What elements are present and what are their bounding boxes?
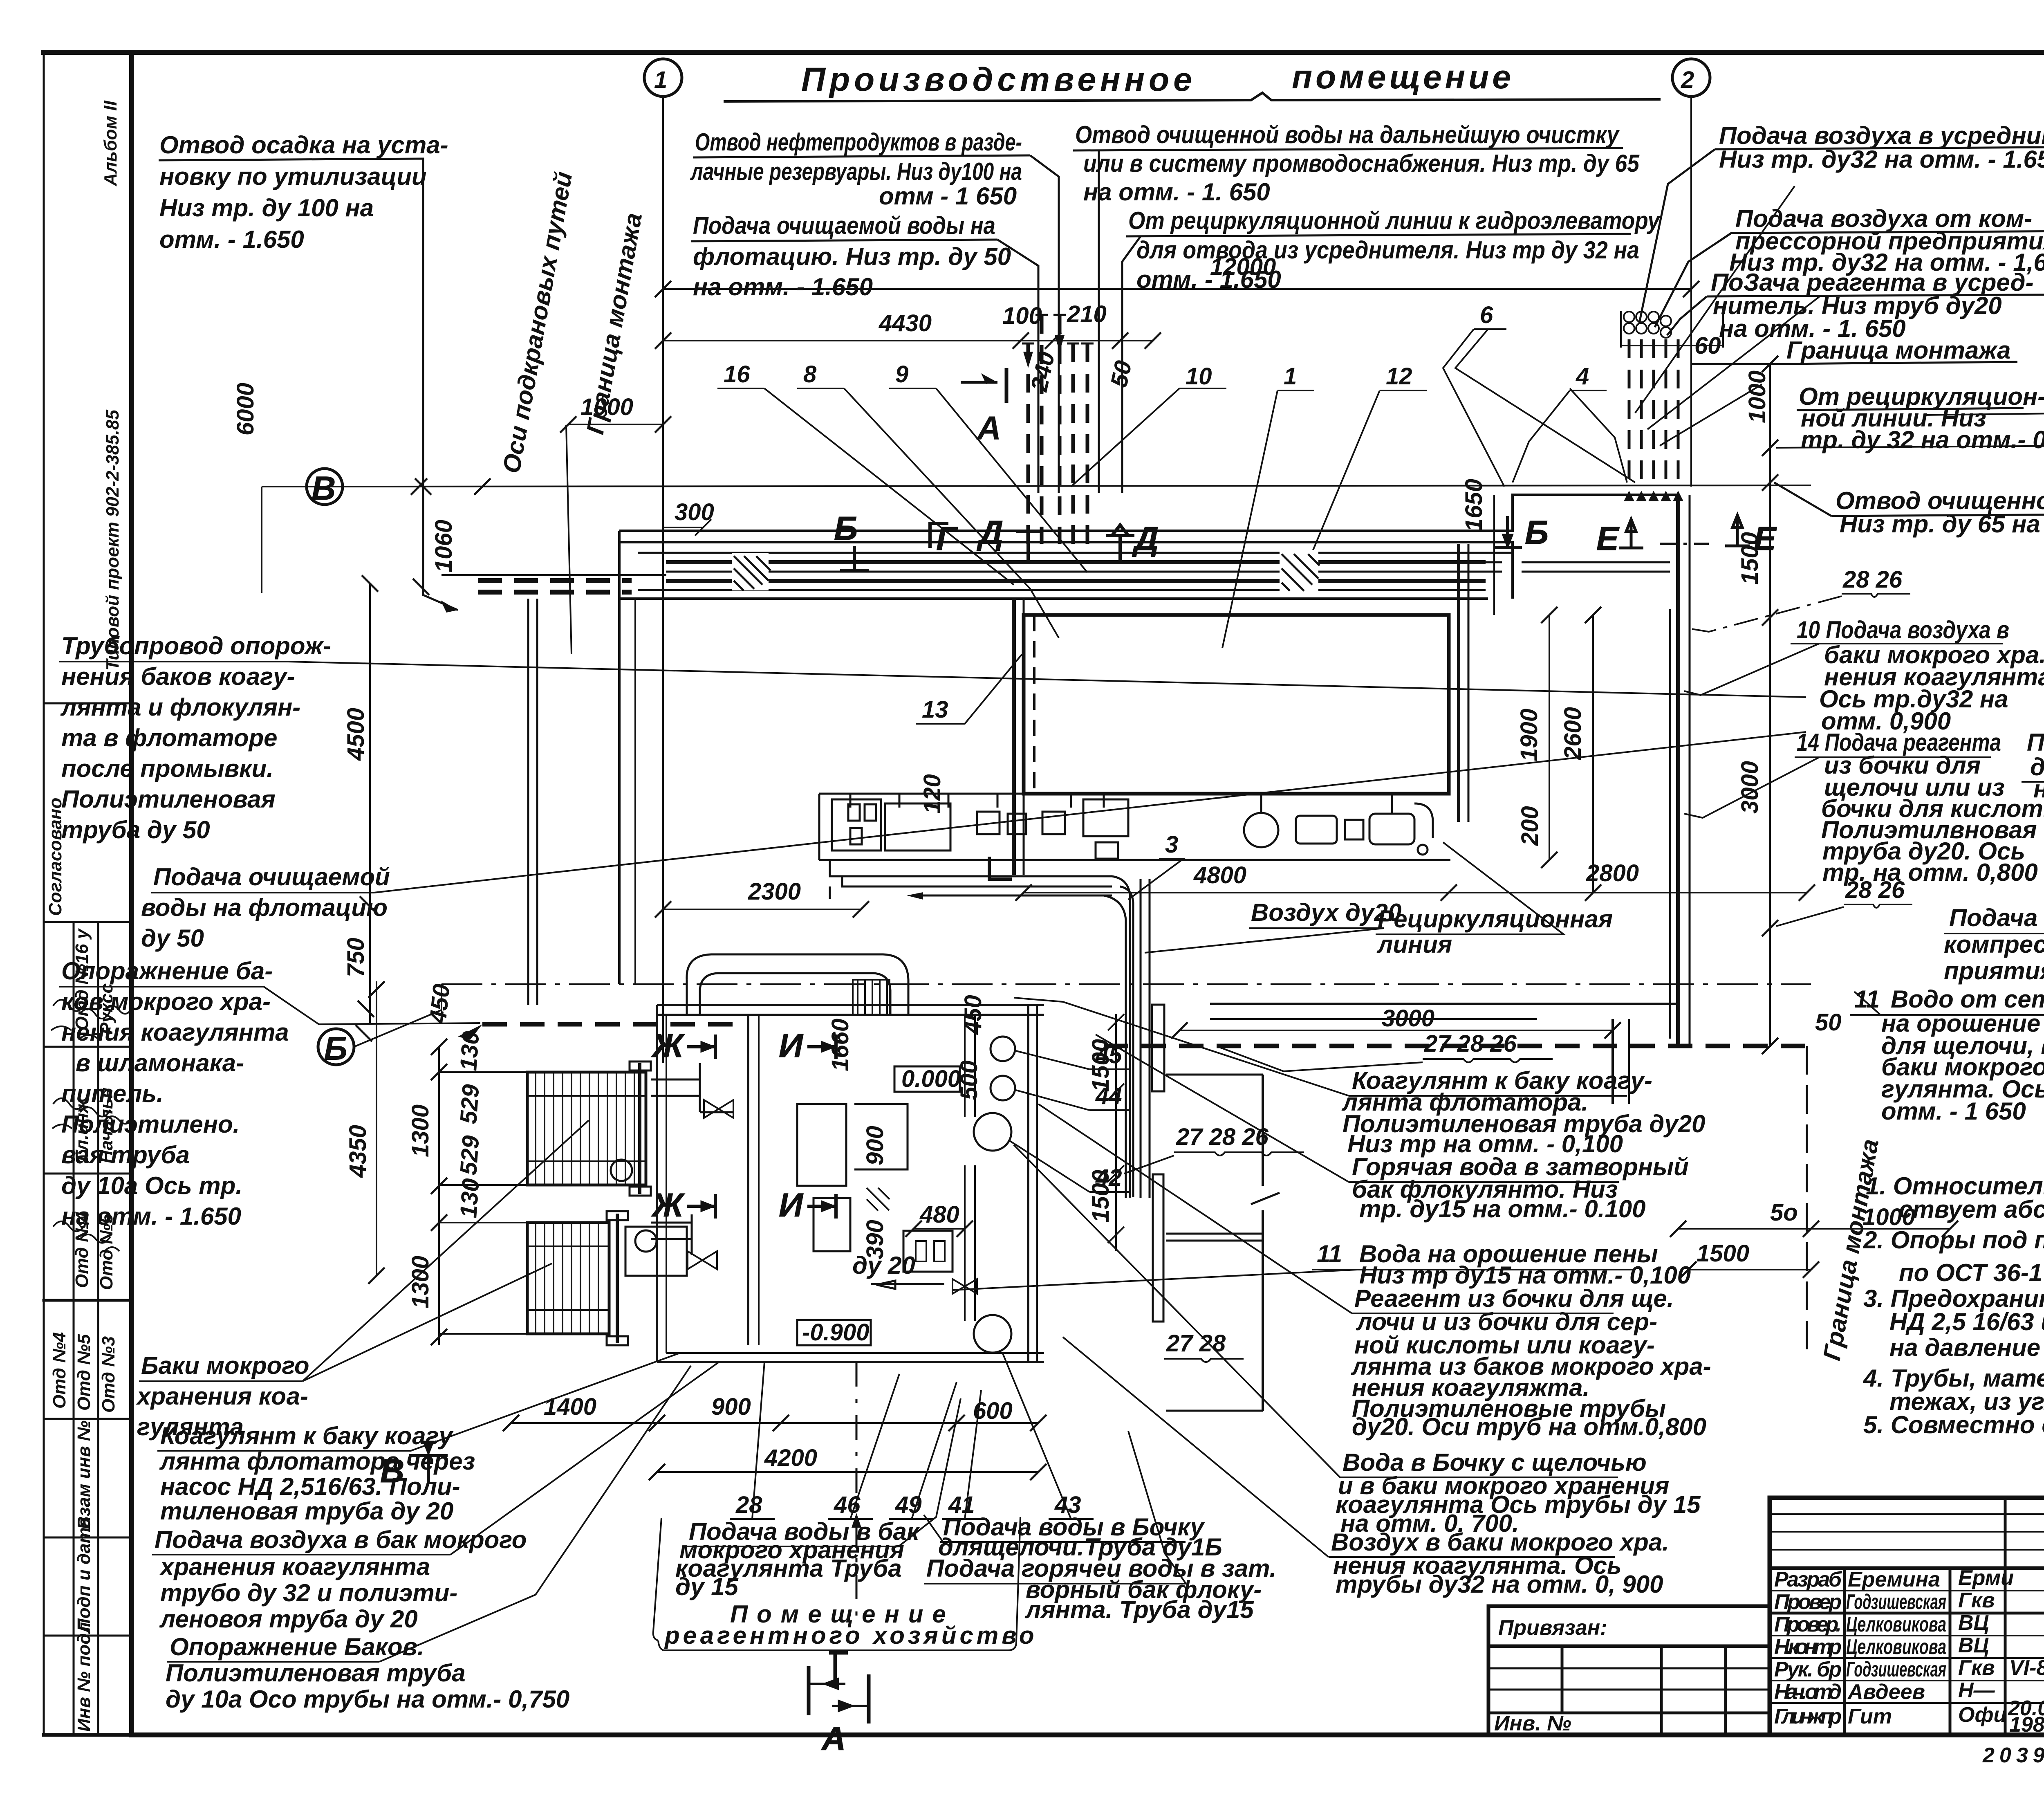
underline koagulyant flotatora bbox=[1014, 998, 1627, 1096]
dashed pipe bundle top right (x 3650-3800) bbox=[1621, 311, 1723, 501]
DD junction leader bbox=[1923, 361, 2044, 415]
bottom right dim line bbox=[1678, 1228, 1950, 1230]
motor block 2 bbox=[1345, 820, 1363, 839]
du20 arrow pipe bbox=[871, 1281, 944, 1289]
svg-text:А: А bbox=[976, 410, 1001, 447]
dim line 1400-900 bbox=[511, 1422, 1038, 1424]
svg-text:450: 450 bbox=[424, 983, 455, 1025]
svg-text:Еремина: Еремина bbox=[1848, 1568, 1940, 1591]
underline vozdukh v baki bbox=[1063, 1337, 1615, 1557]
svg-text:Г: Г bbox=[936, 520, 958, 557]
svg-text:Коагулянт к баку коагу: Коагулянт к баку коагу bbox=[160, 1422, 454, 1450]
axis 2 line bbox=[1690, 96, 1692, 487]
underline ochishchaemoy bbox=[691, 240, 997, 241]
underline retsirk r bbox=[1797, 408, 2024, 410]
svg-text:-0.900: -0.900 bbox=[802, 1319, 869, 1346]
pump room inner pipes vertical bbox=[965, 1015, 975, 1321]
svg-text:ду 10а Ось тр.: ду 10а Ось тр. bbox=[61, 1172, 242, 1199]
svg-text:Гкв: Гкв bbox=[1958, 1656, 1995, 1680]
barrel labels 45 44 42 bbox=[1095, 1042, 1122, 1191]
flotator left dashed bbox=[1033, 615, 1035, 794]
svg-text:Е: Е bbox=[1754, 520, 1777, 557]
callout 8 leader bbox=[797, 388, 1059, 638]
svg-text:ду 15: ду 15 bbox=[675, 1573, 739, 1600]
svg-text:900: 900 bbox=[862, 1126, 888, 1165]
svg-text:0.000: 0.000 bbox=[901, 1066, 961, 1092]
svg-text:6000: 6000 bbox=[232, 383, 259, 435]
flotator left wall thick bbox=[1012, 599, 1016, 875]
leader otvod ochishchennoy bbox=[1098, 150, 1100, 493]
svg-text:50: 50 bbox=[1105, 358, 1137, 390]
svg-text:Баки мокрого: Баки мокрого bbox=[141, 1352, 309, 1379]
kompressornoy underline bbox=[1944, 934, 2044, 985]
svg-text:лянта. Труба ду15: лянта. Труба ду15 bbox=[1024, 1596, 1254, 1623]
svg-text:на отм. - 1.650: на отм. - 1.650 bbox=[61, 1203, 241, 1230]
left strip divider bbox=[73, 922, 75, 1735]
callout 9 leader bbox=[889, 388, 1087, 572]
svg-text:на давление 6 кгс/см²: на давление 6 кгс/см² bbox=[1889, 1334, 2044, 1361]
equip rects inside bbox=[797, 1104, 846, 1186]
svg-text:Инв. №: Инв. № bbox=[1494, 1712, 1571, 1735]
tank 2 inner box bbox=[625, 1227, 687, 1276]
svg-text:1900: 1900 bbox=[1516, 709, 1542, 761]
svg-text:450: 450 bbox=[960, 995, 986, 1035]
tank dim chain left bbox=[368, 981, 527, 1345]
axis bubble V bbox=[307, 469, 343, 505]
svg-text:Отвод очищенной воды на дальне: Отвод очищенной воды на дальнейшую очист… bbox=[1075, 121, 1620, 148]
lower pipe run bbox=[830, 860, 1112, 876]
label 3 leader bbox=[1128, 859, 1183, 900]
axis B dash-dot bbox=[442, 983, 1811, 985]
svg-text:2. Опоры под полиэтиленовые: 2. Опоры под полиэтиленовые трубы выполн… bbox=[1863, 1226, 2044, 1254]
TITLE BLOCK bbox=[1770, 1498, 2044, 1735]
svg-text:130: 130 bbox=[455, 1178, 484, 1219]
dim 1650 line bbox=[1493, 495, 1495, 615]
underline otvod r bbox=[1831, 514, 2044, 516]
crane rail dashed bbox=[478, 578, 632, 583]
dim 1000 line bbox=[560, 416, 671, 433]
granitsa line left vertical bbox=[566, 425, 572, 654]
drop 2 circles bbox=[1624, 312, 1671, 338]
dim 3000 bottom line bbox=[1179, 1030, 1613, 1031]
label 13 underline leader bbox=[916, 654, 1022, 724]
leader ochishchaemoy bbox=[997, 240, 1038, 493]
svg-text:Гит: Гит bbox=[1848, 1705, 1892, 1728]
svg-text:Типовой проект 902-2-385.85: Типовой проект 902-2-385.85 bbox=[103, 410, 123, 671]
left vertical dim chain bbox=[262, 478, 431, 1041]
svg-text:В: В bbox=[312, 470, 336, 507]
tank 2 body bbox=[527, 1223, 609, 1334]
hatch patch 1 bbox=[732, 553, 771, 590]
title block: staff row lines bbox=[1770, 1590, 2044, 1591]
svg-text:Рециркуляционная: Рециркуляционная bbox=[1378, 905, 1613, 933]
svg-text:28 26: 28 26 bbox=[1842, 566, 1903, 593]
A-A section marker bottom bbox=[809, 1653, 869, 1757]
privyazan box bbox=[1488, 1606, 1770, 1735]
svg-text:Подача очищаемой воды на: Подача очищаемой воды на bbox=[693, 212, 995, 239]
marker B down arrow right bbox=[1493, 516, 1522, 549]
svg-text:Отд №3: Отд №3 bbox=[99, 1336, 119, 1413]
svg-text:Взам инв №: Взам инв № bbox=[74, 1421, 94, 1529]
pump circle bbox=[1244, 813, 1278, 847]
granitsa dashed thick right bbox=[1104, 1044, 1811, 1048]
squiggle braces bbox=[1423, 1059, 1553, 1062]
underline podacha ochishch left bbox=[151, 732, 1806, 893]
svg-text:помещение: помещение bbox=[1292, 58, 1514, 96]
svg-text:И: И bbox=[779, 1027, 804, 1064]
underline oporazhnenie bottom bbox=[167, 1366, 691, 1662]
svg-text:питель.: питель. bbox=[61, 1080, 164, 1107]
svg-text:воды на флотацию: воды на флотацию bbox=[141, 894, 388, 921]
svg-text:Н.контр: Н.контр bbox=[1774, 1635, 1842, 1659]
vertical dashed axis pump room bbox=[856, 1362, 858, 1627]
svg-text:2: 2 bbox=[1681, 67, 1694, 93]
pump room bottom wall bbox=[657, 1361, 1044, 1363]
underline retsirk bbox=[1126, 234, 1631, 236]
right wall double bbox=[1676, 495, 1680, 1047]
svg-text:Офи: Офи bbox=[1958, 1703, 2006, 1727]
callout 16 leader bbox=[717, 388, 1014, 585]
elevation label 0.000 bbox=[894, 1066, 960, 1092]
tank 2 flanges bbox=[607, 1211, 628, 1220]
leader podacha vozdukha bbox=[1639, 149, 1715, 323]
dim 1900 2600 lines bbox=[1549, 615, 1550, 860]
underline goryachaya bbox=[1096, 1035, 1619, 1182]
pump room left wall bbox=[656, 1005, 658, 1362]
right wall inner pipes bbox=[1669, 609, 1671, 1039]
axis bubble B bbox=[318, 1029, 354, 1065]
pump unit small rects left bbox=[832, 799, 881, 851]
svg-text:11: 11 bbox=[1854, 985, 1880, 1013]
svg-text:20397-01: 20397-01 bbox=[1982, 1744, 2044, 1767]
svg-text:тр. ду15 на отм.- 0.100: тр. ду15 на отм.- 0.100 bbox=[1359, 1195, 1646, 1223]
pump room wall block hatched bbox=[853, 980, 890, 1015]
svg-text:Подача воздуха в усреднитель: Подача воздуха в усреднитель bbox=[1719, 122, 2044, 149]
svg-text:нения коагулянта: нения коагулянта bbox=[61, 1019, 289, 1046]
svg-text:Е: Е bbox=[1596, 520, 1620, 557]
svg-text:хранения коа-: хранения коа- bbox=[136, 1382, 308, 1410]
manifold small bbox=[1083, 799, 1128, 836]
hatch small patch inside bbox=[867, 1188, 890, 1211]
svg-text:4500: 4500 bbox=[343, 708, 369, 761]
svg-text:Согласовано: Согласовано bbox=[45, 798, 65, 916]
block 14 underline bbox=[1684, 757, 1991, 818]
corridor pipes bbox=[638, 552, 1486, 554]
callout 6 leader bbox=[1443, 329, 1506, 487]
title block: designation cell bottom bbox=[1770, 1566, 2044, 1570]
wall line vertical bbox=[1262, 1075, 1264, 1411]
svg-text:Годзишевская: Годзишевская bbox=[1846, 1658, 1946, 1681]
left strip row lines bbox=[44, 702, 132, 705]
svg-text:Целковикова: Целковикова bbox=[1846, 1613, 1946, 1636]
callout 10 leader bbox=[1071, 388, 1226, 487]
frame bottom edge full bbox=[44, 1733, 2044, 1737]
plan top wall bbox=[619, 541, 1488, 543]
tank 2 circle bbox=[635, 1230, 657, 1252]
tank 1 grid horizontals bbox=[527, 1096, 646, 1161]
svg-text:От рециркуляционной линии к ги: От рециркуляционной линии к гидроэлевато… bbox=[1128, 207, 1661, 234]
svg-text:200: 200 bbox=[1517, 806, 1543, 846]
svg-text:или в систему промводоснабжен: или в систему промводоснабжения. Низ тр.… bbox=[1083, 150, 1640, 177]
leaders from top-right labels to drop2 bbox=[1455, 186, 1819, 482]
granitsa dashed thick left bbox=[482, 1022, 738, 1027]
underline granitsa montazha r bbox=[1784, 362, 2017, 364]
svg-text:отм - 1 650: отм - 1 650 bbox=[879, 182, 1017, 210]
wall T column upper bbox=[1152, 1005, 1164, 1091]
vertical drop line pair left bbox=[829, 886, 831, 899]
svg-text:130: 130 bbox=[455, 1030, 484, 1072]
svg-text:новку по утилизации: новку по утилизации bbox=[159, 163, 427, 190]
svg-text:4: 4 bbox=[1576, 363, 1589, 390]
svg-text:отм. - 1.650: отм. - 1.650 bbox=[159, 226, 304, 253]
svg-text:2600: 2600 bbox=[1560, 707, 1586, 760]
left strip rotated texts bbox=[45, 101, 123, 1732]
svg-text:VI-83: VI-83 bbox=[2009, 1656, 2044, 1680]
svg-text:6: 6 bbox=[1480, 302, 1493, 328]
underline podacha vody v bochku bbox=[924, 1515, 1186, 1542]
motor block 1 bbox=[1296, 816, 1337, 844]
tank 1 circle fitting bbox=[611, 1160, 632, 1181]
leaders 27 28 26 bbox=[1124, 1047, 1423, 1174]
28 26 bottom brace bbox=[1844, 904, 1912, 908]
svg-text:Б: Б bbox=[324, 1030, 347, 1067]
svg-text:Авдеев: Авдеев bbox=[1847, 1680, 1925, 1704]
svg-text:3: 3 bbox=[1165, 831, 1178, 858]
dim 1000 vertical r bbox=[1769, 364, 1771, 482]
axis arrow bottom bbox=[852, 1513, 861, 1528]
granitsa vertical dash bottom right bbox=[1806, 1046, 1808, 1358]
podacha voz usred underline bbox=[2022, 782, 2044, 877]
svg-text:750: 750 bbox=[343, 938, 369, 977]
title block outer bbox=[1770, 1498, 2044, 1735]
underline kompressornoy bbox=[1731, 231, 2044, 233]
svg-text:Провер: Провер bbox=[1774, 1590, 1842, 1614]
svg-text:Полиэтиленовая труба: Полиэтиленовая труба bbox=[166, 1659, 466, 1687]
pomeshchenie callout outline bbox=[653, 1517, 1020, 1650]
tank 1 body bbox=[527, 1072, 646, 1185]
small circles fittings bbox=[1418, 845, 1428, 855]
underline baki bbox=[139, 1120, 589, 1381]
callout row leaders bbox=[752, 1353, 1071, 1519]
leader retsirk bbox=[1122, 236, 1141, 493]
dim 6000 extension bbox=[262, 487, 423, 593]
svg-text:Рук. бр: Рук. бр bbox=[1774, 1658, 1842, 1681]
dim 300 line bbox=[663, 519, 711, 536]
dim 4430 line bbox=[663, 340, 1021, 341]
dim 4430 ticks bbox=[655, 332, 1161, 349]
svg-text:на отм. - 1.650: на отм. - 1.650 bbox=[693, 273, 873, 301]
svg-text:529: 529 bbox=[455, 1084, 484, 1125]
callout row underlines bbox=[730, 1518, 1094, 1520]
header underline bbox=[724, 93, 1661, 101]
equipment risers bbox=[850, 794, 1392, 814]
svg-text:5о: 5о bbox=[1770, 1199, 1798, 1226]
tank 1 flanges bbox=[630, 1061, 651, 1070]
marker L left bbox=[989, 857, 1012, 879]
svg-text:4800: 4800 bbox=[1193, 862, 1246, 889]
dim chain vertical line bbox=[422, 487, 424, 595]
svg-text:16: 16 bbox=[724, 361, 750, 388]
marker V bottom left bbox=[380, 1441, 448, 1490]
tank header pipe vertical bbox=[747, 1014, 749, 1345]
svg-text:13: 13 bbox=[922, 696, 948, 723]
equipment row top line bbox=[819, 793, 1024, 795]
svg-text:1: 1 bbox=[654, 67, 667, 93]
pipe run arrows bbox=[916, 895, 1112, 897]
svg-text:Производственное: Производственное bbox=[801, 61, 1196, 98]
svg-text:вая труба: вая труба bbox=[61, 1141, 190, 1169]
extension lines tanks bbox=[439, 1072, 527, 1334]
left wall of hall bbox=[618, 531, 621, 984]
svg-text:Трубопровод опорож-: Трубопровод опорож- bbox=[61, 632, 331, 660]
svg-text:трубо ду 32 и полиэти-: трубо ду 32 и полиэти- bbox=[160, 1579, 457, 1607]
drop 2 funnels bbox=[1624, 491, 1683, 501]
svg-text:тр. ду 32 на отм.- 0,200: тр. ду 32 на отм.- 0,200 bbox=[1801, 426, 2044, 453]
corridor right elbow bbox=[1486, 542, 1513, 599]
svg-text:Д: Д bbox=[1132, 520, 1159, 557]
tank 2 grid horizontals bbox=[527, 1246, 609, 1310]
svg-text:Подп и дата: Подп и дата bbox=[74, 1517, 94, 1631]
wall T bar bbox=[1166, 1234, 1263, 1241]
svg-text:НД 2,5 16/63 и НД 2.5 25/40: НД 2,5 16/63 и НД 2.5 25/40 отрегулирова… bbox=[1889, 1308, 2044, 1335]
valve bowtie bbox=[953, 1279, 977, 1294]
underline nefteproduktov bbox=[693, 155, 1030, 157]
svg-text:по ОСТ 36-17-77: по ОСТ 36-17-77 bbox=[1899, 1259, 2044, 1286]
underline podacha goryachei bbox=[924, 1431, 1186, 1584]
svg-text:1500: 1500 bbox=[1087, 1039, 1114, 1092]
28 26 top brace bbox=[1842, 594, 1910, 597]
svg-text:ду 50: ду 50 bbox=[141, 925, 204, 952]
svg-text:50: 50 bbox=[1815, 1009, 1842, 1036]
title block: staff column lines bbox=[1843, 1568, 1846, 1735]
27 28 26 labels group bbox=[1166, 1030, 1517, 1357]
28 26 top leaders bbox=[1691, 596, 1842, 632]
svg-text:Привязан:: Привязан: bbox=[1498, 1616, 1607, 1640]
underline reagent bbox=[1038, 1104, 1614, 1313]
svg-text:Полиэтиленовая: Полиэтиленовая bbox=[61, 785, 276, 813]
svg-text:Опоражнение ба-: Опоражнение ба- bbox=[61, 957, 273, 985]
svg-text:1300: 1300 bbox=[407, 1104, 434, 1157]
axis V line bbox=[345, 485, 1811, 487]
retsirk leader bbox=[1376, 842, 1564, 934]
underline koagulyant bottom bbox=[157, 1353, 679, 1451]
bottom left labels under pump room bbox=[664, 1513, 1276, 1649]
second room top wall bbox=[1210, 1003, 1678, 1005]
title block: top small rows bbox=[1770, 1513, 2044, 1515]
svg-text:Д: Д bbox=[977, 514, 1003, 551]
dim line 4200 bbox=[657, 1471, 1038, 1473]
elevation label -0.900 bbox=[797, 1320, 871, 1345]
inner wall vertical right bbox=[1611, 1019, 1614, 1104]
underline oporazhnenie left bbox=[59, 987, 480, 1024]
svg-text:120: 120 bbox=[919, 774, 946, 814]
top right wall piece bbox=[1488, 495, 1678, 531]
dim 1400 900 4200 600 bottom bbox=[544, 1394, 1013, 1471]
svg-text:насос НД 2,516/63. Поли-: насос НД 2,516/63. Поли- bbox=[160, 1473, 460, 1500]
equipment row bottom bbox=[819, 859, 1450, 861]
leader kompressornoy bbox=[1655, 233, 1731, 327]
svg-text:1060: 1060 bbox=[430, 520, 457, 572]
svg-text:реагентного хозяйство: реагентного хозяйство bbox=[664, 1622, 1038, 1649]
svg-text:ков мокрого хра-: ков мокрого хра- bbox=[61, 988, 271, 1015]
axis 1 line bbox=[662, 96, 664, 1063]
svg-text:труба ду 50: труба ду 50 bbox=[61, 816, 210, 844]
frame top edge full bbox=[44, 50, 2044, 55]
tank outlet curve bbox=[1414, 803, 1433, 838]
svg-text:компрессорной пред-: компрессорной пред- bbox=[1944, 931, 2044, 958]
pump room top wall bbox=[657, 1004, 1044, 1006]
left strip signatures bbox=[51, 1000, 133, 1251]
svg-text:1660: 1660 bbox=[827, 1019, 854, 1071]
wall top horiz bbox=[1166, 1074, 1263, 1076]
svg-text:хранения коагулянта: хранения коагулянта bbox=[159, 1553, 430, 1580]
svg-text:Н—: Н— bbox=[1958, 1679, 1995, 1702]
svg-text:1983: 1983 bbox=[2009, 1713, 2044, 1737]
svg-text:Водо от сети водопровода: Водо от сети водопровода bbox=[1891, 985, 2044, 1013]
svg-text:ВЦ: ВЦ bbox=[1958, 1611, 1989, 1635]
svg-text:Подача очищаемой: Подача очищаемой bbox=[153, 863, 390, 891]
equipment left boundary bbox=[818, 794, 820, 860]
wall bottom horiz bbox=[1166, 1410, 1263, 1412]
small fitting boxes bbox=[903, 1231, 953, 1272]
crane rail thin bbox=[442, 574, 666, 576]
svg-text:Альбом II: Альбом II bbox=[101, 101, 121, 186]
svg-text:9: 9 bbox=[895, 361, 908, 388]
wall T column lower bbox=[1153, 1174, 1163, 1322]
callout 12 leader bbox=[1312, 390, 1427, 552]
svg-text:лачные резервуары. Низ ду100 н: лачные резервуары. Низ ду100 на bbox=[690, 158, 1022, 185]
svg-text:10 Подача воздуха в: 10 Подача воздуха в bbox=[1797, 616, 2009, 644]
pipes to right wall bbox=[1522, 562, 1670, 572]
annotation underline leader bbox=[159, 159, 458, 610]
pump room right wall bbox=[1027, 1005, 1029, 1362]
underline voda v bochku bbox=[1014, 1145, 1618, 1477]
svg-text:8: 8 bbox=[803, 361, 817, 388]
svg-text:ду20. Оси труб на отм.0,800: ду20. Оси труб на отм.0,800 bbox=[1352, 1413, 1706, 1441]
granitsa arrow left end bbox=[458, 1024, 482, 1040]
dash-dot axis lines bbox=[318, 984, 1811, 1065]
svg-text:приятия.: приятия. bbox=[1944, 957, 2044, 985]
svg-text:4430: 4430 bbox=[879, 310, 932, 337]
svg-text:1400: 1400 bbox=[544, 1394, 596, 1420]
granitsa montazha line r bbox=[1691, 363, 1784, 365]
svg-text:480: 480 bbox=[919, 1201, 959, 1228]
svg-text:1: 1 bbox=[1284, 363, 1297, 390]
svg-text:3000: 3000 bbox=[1737, 761, 1763, 814]
svg-text:Провер.: Провер. bbox=[1774, 1613, 1842, 1636]
svg-text:Разраб: Разраб bbox=[1774, 1568, 1842, 1591]
axis bubble 1 bbox=[644, 59, 682, 96]
pipes below equipment bbox=[830, 860, 1150, 1198]
svg-text:1500: 1500 bbox=[1697, 1240, 1749, 1267]
tank 2 grid verticals bbox=[536, 1223, 598, 1334]
svg-text:Граница монтажа: Граница монтажа bbox=[1786, 337, 2011, 364]
dim 12000 ticks bbox=[655, 281, 1699, 297]
svg-text:529: 529 bbox=[455, 1135, 484, 1176]
valve manifold squares bbox=[977, 812, 1000, 834]
vozduh leader bbox=[1145, 928, 1384, 953]
drop 1 arrows bbox=[1023, 335, 1065, 368]
flotator right pipe bbox=[1457, 544, 1460, 822]
flotator body bbox=[1024, 615, 1449, 794]
svg-text:нитель: нитель bbox=[2033, 775, 2044, 803]
svg-text:лянта и флокулян-: лянта и флокулян- bbox=[60, 693, 300, 721]
block 10 underline bbox=[1684, 644, 2003, 695]
svg-text:1650: 1650 bbox=[1461, 479, 1487, 532]
axis bubble 2 bbox=[1672, 59, 1710, 96]
svg-text:Б: Б bbox=[1525, 514, 1549, 551]
svg-text:Инв № подл: Инв № подл bbox=[74, 1622, 94, 1732]
